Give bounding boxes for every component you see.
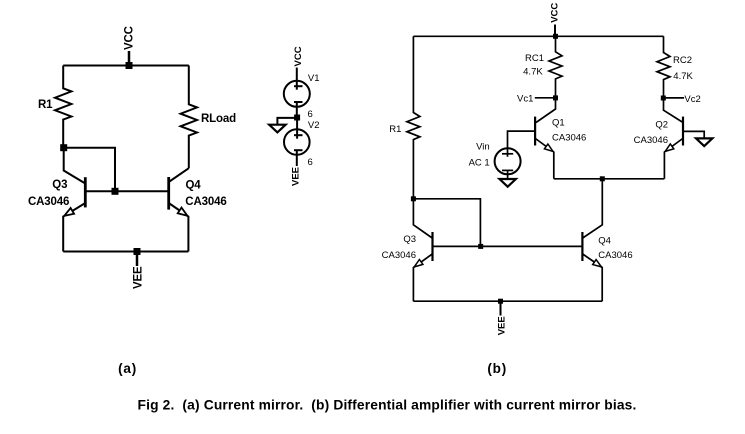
svg-text:RC1: RC1 — [525, 53, 544, 64]
svg-text:VCC: VCC — [549, 3, 560, 23]
svg-text:(b): (b) — [487, 361, 507, 376]
Q4 emitter arrowhead — [178, 208, 188, 216]
transistor Q1 bar — [534, 117, 536, 146]
svg-text:RC2: RC2 — [673, 55, 692, 66]
node B junction (a) — [112, 188, 119, 195]
V1 plus crossbar — [294, 85, 303, 87]
svg-text:CA3046: CA3046 — [598, 250, 632, 261]
Q1 emitter arrowhead — [544, 144, 553, 151]
resistor R1 (a) with left rail wire — [55, 66, 71, 148]
transistor Q3 bar — [84, 177, 87, 207]
wire Vin minus to ground — [507, 170, 509, 179]
svg-text:CA3046: CA3046 — [28, 196, 69, 208]
svg-text:Q3: Q3 — [403, 234, 416, 245]
wire VCC stub (b) — [554, 25, 556, 37]
resistor RC1 — [549, 36, 562, 98]
wire Q1 base — [508, 131, 536, 148]
source V1 circle — [284, 81, 310, 107]
wire Q2 collector — [664, 98, 684, 123]
svg-text:6: 6 — [308, 109, 313, 120]
svg-text:4.7K: 4.7K — [523, 67, 543, 78]
svg-text:VEE: VEE — [291, 167, 302, 186]
source V2 circle — [284, 129, 310, 155]
node Vc2 junction — [661, 96, 666, 101]
transistor Q3b bar — [431, 232, 433, 261]
wire top rail (b) — [413, 35, 663, 37]
wire junction into V2 — [296, 118, 298, 139]
wire VEE stub (a) — [136, 252, 139, 267]
node VEE junction (b) — [498, 299, 503, 304]
node emitter join junction — [600, 176, 605, 181]
svg-text:CA3046: CA3046 — [185, 196, 226, 208]
source Vin circle — [495, 148, 521, 174]
transistor Q4b bar — [581, 232, 583, 261]
wire Q2 base to ground — [683, 131, 704, 138]
resistor R1 (b) with left rail — [407, 36, 420, 199]
wire Q1 emitter — [535, 139, 553, 179]
svg-text:V2: V2 — [308, 120, 320, 131]
svg-text:Vin: Vin — [476, 142, 490, 153]
svg-text:RLoad: RLoad — [201, 113, 236, 125]
ground symbol middle — [269, 125, 285, 133]
wire node A to node B — [64, 148, 115, 192]
svg-text:CA3046: CA3046 — [552, 133, 586, 144]
svg-text:Q2: Q2 — [655, 119, 668, 130]
svg-text:Q4: Q4 — [186, 180, 202, 192]
wire V2 minus lead down — [296, 150, 298, 166]
node junction V1-V2 — [294, 115, 300, 121]
svg-text:CA3046: CA3046 — [634, 135, 668, 146]
Q2 emitter arrowhead — [665, 144, 674, 152]
resistor RC2 — [657, 36, 670, 98]
svg-text:VCC: VCC — [293, 46, 304, 66]
transistor Q2 bar — [682, 117, 684, 146]
wire Q4 collector — [169, 168, 189, 182]
wire Q3b emitter — [413, 254, 432, 301]
wire VCC lead into V1 — [296, 68, 298, 90]
svg-text:Q4: Q4 — [598, 236, 611, 247]
wire VEE stub (b) — [500, 301, 502, 315]
svg-text:VEE: VEE — [497, 316, 508, 335]
wire bottom rail (a) — [63, 251, 188, 253]
node A junction (a) — [60, 144, 67, 151]
V2 plus crossbar — [294, 134, 303, 136]
svg-text:Vc2: Vc2 — [684, 94, 700, 105]
svg-text:AC 1: AC 1 — [469, 157, 490, 168]
node VEE junction (a) — [134, 248, 141, 255]
svg-text:VCC: VCC — [124, 26, 136, 50]
wire R1 node down to Q3 collector — [413, 199, 432, 238]
Vin lead into circle — [507, 148, 509, 157]
wire Q4 emitter — [169, 203, 189, 252]
svg-text:VEE: VEE — [133, 266, 145, 289]
svg-text:Fig 2. (a) Current mirror. (: Fig 2. (a) Current mirror. (b) Different… — [138, 398, 637, 413]
Q3b emitter arrowhead — [414, 260, 423, 267]
wire Q3b base rail to Q4b — [433, 245, 583, 247]
ground symbol Q2 base — [696, 138, 712, 146]
wire Q3 collector — [64, 148, 86, 184]
wire Vc1 tick — [535, 97, 556, 99]
Q4b emitter arrowhead — [593, 260, 602, 267]
wire top rail (a) — [63, 65, 189, 67]
wire emitter join rail — [554, 178, 665, 180]
svg-text:6: 6 — [308, 157, 313, 168]
wire junction to ground — [277, 118, 297, 125]
svg-text:V1: V1 — [308, 73, 320, 84]
Vin minus bar — [502, 169, 513, 171]
svg-text:Q3: Q3 — [52, 179, 67, 191]
wire bottom rail (b) — [413, 300, 602, 302]
svg-text:Q1: Q1 — [552, 118, 565, 129]
node VCC junction (a) — [126, 62, 133, 69]
wire base rail Q3-Q4 — [85, 190, 168, 192]
svg-text:4.7K: 4.7K — [673, 71, 693, 82]
svg-text:(a): (a) — [118, 361, 137, 376]
wire Q4b emitter — [583, 254, 603, 301]
wire tail down to Q4 collector — [583, 179, 603, 238]
Vin plus crossbar — [502, 153, 513, 155]
node base junction (b) — [478, 244, 483, 249]
node R1 junction (b) — [411, 196, 416, 201]
V2 minus bar — [294, 149, 303, 151]
V1 minus bar — [294, 101, 303, 103]
transistor Q4 bar — [167, 177, 170, 210]
wire Q2 emitter — [664, 139, 682, 179]
wire Vc2 tick — [664, 97, 685, 99]
node VCC junction (b) — [553, 34, 558, 39]
wire Q1 collector — [536, 98, 556, 123]
svg-text:R1: R1 — [389, 124, 401, 135]
Q3 emitter arrowhead — [64, 208, 74, 216]
wire R1 node to base node — [413, 199, 480, 247]
resistor RLoad with right rail wire — [181, 66, 197, 169]
wire VCC stub (a) — [128, 51, 131, 66]
svg-text:CA3046: CA3046 — [382, 250, 416, 261]
svg-text:R1: R1 — [38, 99, 53, 111]
wire Q3 emitter — [63, 203, 85, 252]
node Vc1 junction — [553, 95, 558, 100]
svg-text:Vc1: Vc1 — [517, 94, 533, 105]
wire V1 minus to junction — [296, 102, 298, 118]
ground symbol Vin — [500, 179, 516, 187]
